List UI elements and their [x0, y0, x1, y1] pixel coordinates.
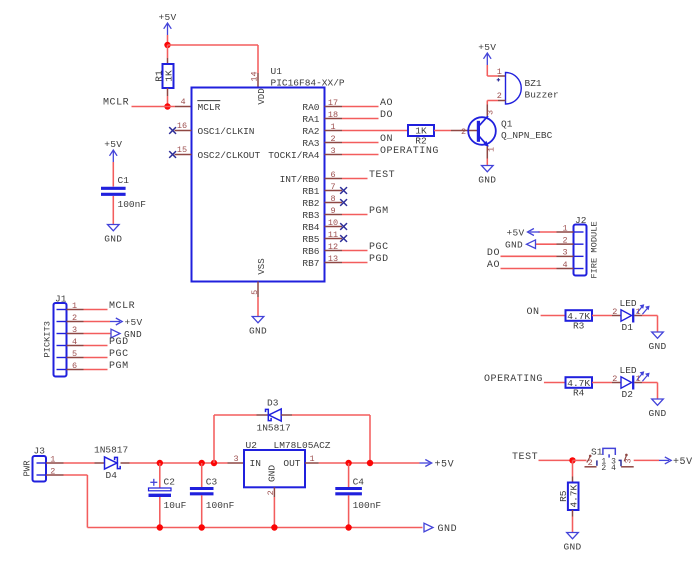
LED D1: [620, 298, 650, 333]
svg-text:DO: DO: [380, 110, 393, 121]
svg-text:1: 1: [635, 307, 640, 317]
pin 1 J1 stub: [67, 301, 84, 311]
node junction +5V/R1/VDD: [164, 42, 170, 48]
pin 2 J3 stub: [46, 466, 64, 476]
connector J1 PICKIT3: [43, 294, 67, 377]
LED D2: [620, 365, 650, 400]
svg-text:VSS: VSS: [257, 258, 267, 274]
svg-text:15: 15: [177, 145, 187, 155]
node junction MCLR: [164, 103, 170, 109]
pin 1 D1 stub: [634, 307, 642, 317]
svg-text:GND: GND: [438, 524, 458, 535]
wire D4 to U2 IN: [130, 462, 228, 464]
svg-text:DO: DO: [487, 248, 500, 259]
svg-text:C2: C2: [164, 477, 176, 488]
ground (D2): [648, 399, 666, 419]
connector J3 PWR: [22, 446, 46, 482]
wire J1-5 + label PGC: [84, 349, 129, 360]
svg-text:2: 2: [601, 464, 606, 473]
svg-text:PGM: PGM: [109, 361, 129, 372]
label MCLR: [103, 98, 129, 109]
svg-text:PIC16F84-XX/P: PIC16F84-XX/P: [271, 78, 345, 89]
pin 1 U2 OUT stub: [305, 454, 319, 464]
wire RA1 + label DO: [342, 110, 393, 121]
svg-text:1: 1: [50, 454, 55, 464]
svg-text:J3: J3: [34, 446, 46, 457]
wire +5V to buzzer pin 1: [487, 65, 498, 76]
pin 16 OSC1 stub + no-connect: [169, 121, 191, 134]
wire U2 GND to rail: [273, 497, 275, 528]
svg-text:GND: GND: [266, 465, 277, 482]
svg-text:1N5817: 1N5817: [94, 445, 128, 456]
svg-text:INT/RB0: INT/RB0: [280, 174, 320, 185]
svg-text:+5V: +5V: [104, 139, 122, 150]
label OPERATING: [484, 374, 543, 385]
svg-text:2: 2: [612, 374, 617, 384]
wire S1 to +5V: [634, 457, 693, 468]
no-connect RB2: [340, 199, 347, 206]
buzzer BZ1: [506, 73, 559, 105]
svg-text:2: 2: [612, 307, 617, 317]
svg-text:1: 1: [497, 67, 502, 77]
resistor R1 1K: [153, 64, 174, 88]
pin 5 J1 stub: [67, 349, 84, 359]
wire J2-2 + global label GND: [505, 240, 557, 251]
pin 2 J1 stub: [67, 313, 84, 323]
svg-text:1: 1: [562, 223, 567, 233]
svg-text:OUT: OUT: [283, 458, 300, 469]
svg-text:1K: 1K: [164, 70, 175, 82]
wire C1 to GND: [112, 196, 114, 225]
resistor R5 4.7K: [558, 483, 580, 511]
svg-text:PGD: PGD: [369, 254, 389, 265]
svg-text:1: 1: [72, 301, 77, 311]
wire junction to VDD drop: [168, 45, 259, 73]
svg-text:R5: R5: [558, 490, 569, 502]
pin 4 J1 stub: [67, 337, 84, 347]
pin 14 VDD stub: [250, 71, 260, 87]
svg-text:10uF: 10uF: [164, 500, 187, 511]
svg-text:AO: AO: [487, 260, 500, 271]
svg-text:1: 1: [309, 454, 314, 464]
pin names U1 left side: [197, 101, 260, 161]
svg-text:+5V: +5V: [506, 227, 524, 238]
svg-text:100nF: 100nF: [118, 199, 147, 210]
pin 4 J2 stub: [557, 260, 574, 270]
svg-text:R3: R3: [573, 321, 585, 332]
wire R1 to MCLR junction: [167, 88, 169, 107]
ground (D1): [648, 332, 666, 352]
svg-text:+5V: +5V: [125, 317, 143, 328]
svg-text:+5V: +5V: [478, 42, 496, 53]
pin 1 buzzer stub: [497, 67, 506, 82]
diode D3 1N5817: [257, 398, 293, 434]
wire RA0 + label AO: [342, 98, 393, 109]
wire J1-4 + label PGD: [84, 337, 129, 348]
svg-text:2: 2: [588, 458, 593, 468]
svg-text:GND: GND: [563, 542, 581, 553]
node junction rail U2: [271, 524, 277, 530]
svg-text:U1: U1: [271, 66, 283, 77]
node junction C4 top: [345, 460, 351, 466]
node junction C2: [157, 460, 163, 466]
wire J2-4 + label AO: [487, 260, 557, 271]
svg-text:R2: R2: [415, 135, 427, 146]
wire J1-6 + label PGM: [84, 361, 129, 372]
svg-text:2: 2: [461, 127, 466, 137]
pin 2 Q1 base stub: [451, 127, 478, 137]
svg-text:+5V: +5V: [435, 459, 455, 470]
resistor R3 4.7K: [566, 310, 593, 331]
svg-text:1: 1: [635, 374, 640, 384]
svg-text:C3: C3: [206, 477, 218, 488]
connector J2 FIRE MODULE: [574, 215, 600, 279]
wire RB6 + label PGC: [342, 242, 389, 253]
svg-text:Buzzer: Buzzer: [525, 90, 559, 101]
wire +5V to junction: [167, 35, 169, 45]
svg-text:RB2: RB2: [302, 198, 319, 209]
svg-text:MCLR: MCLR: [198, 102, 221, 113]
pin 5 VSS stub: [250, 282, 260, 298]
svg-text:PGC: PGC: [369, 242, 389, 253]
svg-text:RB5: RB5: [302, 234, 319, 245]
svg-text:RB4: RB4: [302, 222, 319, 233]
svg-text:U2: U2: [246, 440, 258, 451]
pin 4 MCLR stub: [175, 97, 192, 107]
ground (VSS): [249, 317, 267, 337]
resistor R2 1K: [408, 125, 434, 146]
wire R5 to GND: [572, 510, 574, 533]
svg-text:C1: C1: [118, 175, 130, 186]
wire RB0 + label TEST: [342, 170, 395, 181]
svg-text:J1: J1: [55, 294, 67, 305]
svg-text:2: 2: [562, 236, 567, 246]
capacitor C4 100nF: [335, 477, 381, 511]
svg-text:4.7K: 4.7K: [569, 485, 580, 508]
wire R3 to D1: [592, 315, 612, 317]
svg-text:2: 2: [50, 466, 55, 476]
pin 1 J2 stub: [557, 223, 574, 233]
svg-text:RB3: RB3: [302, 210, 319, 221]
svg-text:GND: GND: [478, 175, 496, 186]
pin 1 Q1 emitter stub: [486, 146, 496, 158]
switch S1: [585, 447, 634, 474]
wire D3 left leg: [214, 415, 257, 463]
svg-text:1: 1: [486, 147, 496, 152]
pin numbers U1 right side: [328, 98, 338, 264]
svg-text:1N5817: 1N5817: [257, 423, 291, 434]
wire TEST to junction: [539, 459, 573, 461]
wire C4 bottom: [348, 495, 350, 527]
svg-text:RA2: RA2: [302, 126, 319, 137]
svg-text:ON: ON: [527, 307, 540, 318]
svg-text:3: 3: [486, 110, 496, 115]
capacitor C3 100nF: [190, 477, 235, 511]
svg-text:GND: GND: [104, 234, 122, 245]
wire J3-2 to ground rail: [64, 475, 88, 528]
ground (C1): [104, 225, 122, 245]
svg-text:R4: R4: [573, 388, 585, 399]
power +5V (R1 rail): [158, 12, 176, 35]
svg-text:LED: LED: [620, 365, 637, 376]
pin 1 D2 stub: [634, 374, 642, 384]
ground (Q1): [478, 166, 496, 186]
svg-text:16: 16: [177, 121, 187, 131]
wire D2 to GND: [642, 383, 658, 400]
wire D1 to GND: [642, 316, 658, 333]
svg-text:2: 2: [266, 490, 276, 495]
svg-text:D4: D4: [106, 470, 118, 481]
label ON: [527, 307, 540, 318]
pin 6 J1 stub: [67, 361, 84, 371]
svg-text:D3: D3: [267, 398, 279, 409]
svg-text:LM78L05ACZ: LM78L05ACZ: [274, 440, 331, 451]
capacitor C1 100nF: [101, 175, 146, 210]
svg-text:100nF: 100nF: [353, 500, 382, 511]
svg-text:RA3: RA3: [302, 138, 319, 149]
svg-text:RB6: RB6: [302, 246, 319, 257]
wire VSS to GND: [257, 297, 259, 317]
node junction rail C2: [157, 524, 163, 530]
wire C3 top: [201, 463, 203, 489]
svg-text:3: 3: [624, 458, 634, 463]
svg-text:+5V: +5V: [673, 457, 693, 468]
wire C3 bottom: [201, 495, 203, 527]
label TEST: [512, 452, 538, 463]
wire J1-3 + global label GND: [84, 329, 143, 340]
svg-text:3: 3: [562, 248, 567, 258]
svg-text:AO: AO: [380, 98, 393, 109]
svg-text:GND: GND: [648, 341, 666, 352]
svg-text:+5V: +5V: [158, 12, 176, 23]
wire J2-1 + global label +5V: [506, 227, 556, 238]
svg-text:PGM: PGM: [369, 206, 389, 217]
svg-text:OPERATING: OPERATING: [484, 374, 543, 385]
pin 1 J3 stub: [46, 454, 64, 464]
wire RB3 + label PGM: [342, 206, 389, 217]
power +5V (C1): [104, 139, 122, 162]
pin stubs U1 right side: [325, 107, 343, 263]
svg-text:TEST: TEST: [512, 452, 538, 463]
regulator U2 LM78L05ACZ: [244, 440, 331, 487]
resistor R4 4.7K: [566, 377, 593, 398]
wire buzzer pin 2 to Q1 collector: [487, 101, 498, 105]
svg-text:6: 6: [72, 361, 77, 371]
wire R2 to Q1 base: [434, 130, 451, 132]
svg-text:RB1: RB1: [302, 186, 319, 197]
node junction D3 right: [367, 460, 373, 466]
wire U2 OUT to +5V: [319, 459, 454, 470]
wire D3 right leg: [292, 415, 370, 463]
wire +5V to C1: [112, 162, 114, 187]
svg-text:RB7: RB7: [302, 258, 319, 269]
wire Q1 emitter to GND: [486, 159, 488, 166]
svg-text:5: 5: [72, 349, 77, 359]
wire J2-3 + label DO: [487, 248, 557, 259]
svg-text:4: 4: [611, 464, 616, 473]
diode D4 1N5817: [94, 445, 130, 482]
svg-text:2: 2: [497, 91, 502, 101]
svg-text:RA1: RA1: [302, 114, 319, 125]
svg-text:OPERATING: OPERATING: [380, 146, 439, 157]
svg-text:5: 5: [250, 290, 260, 295]
transistor Q1 Q_NPN_EBC: [468, 116, 552, 146]
svg-text:3: 3: [72, 325, 77, 335]
svg-text:TOCKI/RA4: TOCKI/RA4: [268, 150, 320, 161]
wire OPERATING to R4: [544, 382, 566, 384]
svg-text:MCLR: MCLR: [103, 98, 129, 109]
node junction rail C3: [199, 524, 205, 530]
pin 2 D1 stub: [612, 307, 621, 317]
svg-text:Q_NPN_EBC: Q_NPN_EBC: [501, 130, 553, 141]
svg-text:4: 4: [180, 97, 185, 107]
svg-text:PICKIT3: PICKIT3: [43, 321, 53, 358]
wire J1-1 + label MCLR: [84, 301, 136, 312]
svg-text:100nF: 100nF: [206, 500, 235, 511]
svg-text:D2: D2: [622, 389, 634, 400]
pin 3 U2 IN stub: [228, 454, 245, 464]
svg-text:TEST: TEST: [369, 170, 395, 181]
svg-text:GND: GND: [505, 240, 523, 251]
wire ground rail: [87, 523, 457, 535]
svg-text:IN: IN: [250, 458, 261, 469]
svg-text:GND: GND: [249, 326, 267, 337]
svg-text:VDD: VDD: [257, 88, 267, 104]
pin 2 U2 GND stub: [266, 487, 276, 497]
wire C2 bottom: [159, 497, 161, 528]
op-amp U1 PIC16F84-XX/P body: [192, 66, 345, 282]
wire junction to S1: [573, 459, 587, 461]
svg-text:ON: ON: [380, 134, 393, 145]
wire R4 to D2: [592, 382, 612, 384]
wire J3-1 to D4: [64, 462, 95, 464]
pin 2 J2 stub: [557, 236, 574, 246]
wire C4 top: [348, 463, 350, 489]
svg-text:MCLR: MCLR: [109, 301, 135, 312]
svg-text:S1: S1: [591, 447, 603, 458]
svg-text:OSC2/CLKOUT: OSC2/CLKOUT: [198, 150, 261, 161]
pin 3 J2 stub: [557, 248, 574, 258]
pin 15 OSC2 stub + no-connect: [169, 145, 191, 158]
node junction C3: [199, 460, 205, 466]
svg-text:PWR: PWR: [22, 460, 32, 477]
svg-text:GND: GND: [648, 408, 666, 419]
capacitor C2 10uF: [149, 477, 187, 511]
pin 2 buzzer stub: [497, 91, 506, 101]
svg-text:4: 4: [72, 337, 77, 347]
svg-text:PGC: PGC: [109, 349, 129, 360]
svg-text:OSC1/CLKIN: OSC1/CLKIN: [198, 126, 255, 137]
node junction D3 left: [211, 460, 217, 466]
svg-text:J2: J2: [575, 215, 587, 226]
svg-text:RA0: RA0: [302, 102, 319, 113]
ground (R5): [563, 533, 581, 553]
svg-text:D1: D1: [622, 322, 634, 333]
svg-text:2: 2: [72, 313, 77, 323]
svg-text:14: 14: [250, 71, 260, 81]
svg-text:Q1: Q1: [501, 119, 513, 130]
wire C2 top: [159, 463, 161, 488]
no-connect RB5: [340, 235, 347, 242]
svg-text:FIRE MODULE: FIRE MODULE: [589, 221, 599, 278]
wire junction to R5: [572, 460, 574, 482]
no-connect RB1: [340, 187, 347, 194]
wire junction to R1: [167, 45, 169, 64]
pin 3 J1 stub: [67, 325, 84, 335]
svg-text:3: 3: [233, 454, 238, 464]
pin 3 Q1 collector stub: [486, 105, 496, 116]
wire RB7 + label PGD: [342, 254, 389, 265]
svg-text:4: 4: [562, 260, 567, 270]
power +5V (buzzer): [478, 42, 496, 65]
node junction TEST/R5: [569, 457, 575, 463]
wire RA4 + label OPERATING: [342, 146, 439, 157]
svg-text:C4: C4: [353, 477, 365, 488]
wire RA3 + label ON: [342, 134, 393, 145]
svg-text:LED: LED: [620, 298, 637, 309]
no-connect RB4: [340, 223, 347, 230]
pin 2 D2 stub: [612, 374, 621, 384]
svg-text:PGD: PGD: [109, 337, 129, 348]
node junction rail C4: [345, 524, 351, 530]
wire RA2 to R2: [342, 130, 408, 132]
wire ON to R3: [541, 315, 566, 317]
svg-text:BZ1: BZ1: [525, 78, 542, 89]
pin names U1 right side: [268, 102, 320, 269]
wire J1-2 + global label +5V: [84, 317, 143, 328]
wire MCLR label to pin 4: [132, 106, 176, 108]
